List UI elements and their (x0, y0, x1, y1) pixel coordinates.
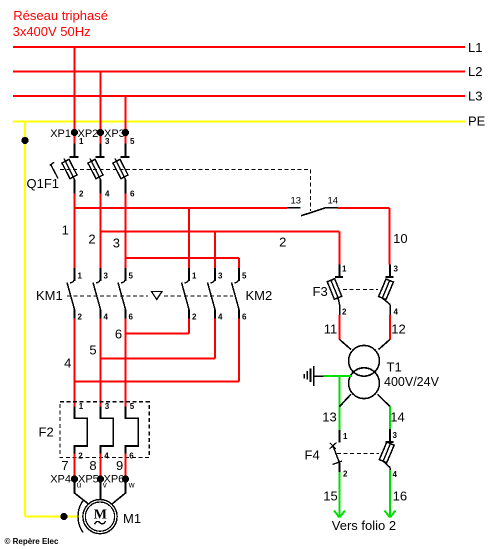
svg-text:13: 13 (291, 196, 302, 207)
svg-text:2: 2 (78, 451, 83, 460)
svg-text:3: 3 (105, 137, 110, 146)
svg-text:4: 4 (394, 308, 399, 317)
svg-text:6: 6 (115, 327, 122, 342)
svg-text:1: 1 (79, 137, 84, 146)
svg-text:2: 2 (78, 313, 83, 322)
svg-text:KM1: KM1 (36, 288, 63, 303)
svg-text:8: 8 (89, 458, 96, 473)
svg-text:4: 4 (393, 470, 398, 479)
svg-text:10: 10 (393, 231, 407, 246)
svg-text:2: 2 (192, 313, 197, 322)
svg-text:w: w (128, 481, 135, 490)
svg-text:Réseau triphasé: Réseau triphasé (13, 8, 108, 23)
svg-text:3: 3 (218, 272, 223, 281)
svg-text:9: 9 (116, 458, 123, 473)
svg-text:1: 1 (79, 402, 84, 411)
svg-text:F4: F4 (305, 447, 320, 462)
svg-text:3: 3 (104, 272, 109, 281)
svg-text:1: 1 (192, 272, 197, 281)
svg-text:2: 2 (79, 190, 84, 199)
svg-text:6: 6 (129, 451, 134, 460)
svg-text:3x400V 50Hz: 3x400V 50Hz (13, 24, 91, 39)
svg-text:1: 1 (78, 272, 83, 281)
svg-text:3: 3 (394, 265, 399, 274)
svg-text:L2: L2 (468, 64, 482, 79)
svg-text:XP4: XP4 (50, 474, 71, 486)
svg-text:XP1: XP1 (50, 128, 71, 140)
svg-text:5: 5 (129, 272, 134, 281)
svg-text:15: 15 (323, 489, 337, 504)
svg-text:5: 5 (89, 343, 96, 358)
svg-text:Q1F1: Q1F1 (27, 176, 60, 191)
svg-text:4: 4 (64, 355, 71, 370)
svg-text:5: 5 (130, 402, 135, 411)
svg-text:14: 14 (328, 196, 339, 207)
svg-text:2: 2 (279, 235, 286, 250)
svg-text:L1: L1 (468, 40, 482, 55)
svg-text:T1: T1 (387, 359, 402, 374)
svg-text:1: 1 (62, 223, 69, 238)
svg-text:4: 4 (105, 190, 110, 199)
svg-text:© Repère Elec: © Repère Elec (5, 537, 59, 546)
svg-text:3: 3 (105, 402, 110, 411)
svg-text:7: 7 (61, 458, 68, 473)
svg-text:3: 3 (393, 431, 398, 440)
svg-text:5: 5 (242, 272, 247, 281)
svg-text:16: 16 (393, 489, 407, 504)
svg-text:F2: F2 (39, 424, 54, 439)
svg-text:4: 4 (104, 451, 109, 460)
svg-text:2: 2 (88, 232, 95, 247)
svg-text:1: 1 (343, 432, 348, 441)
svg-text:PE: PE (468, 114, 486, 129)
svg-text:6: 6 (242, 313, 247, 322)
svg-text:400V/24V: 400V/24V (384, 375, 440, 389)
svg-text:4: 4 (218, 313, 223, 322)
svg-text:4: 4 (104, 313, 109, 322)
svg-text:1: 1 (342, 265, 347, 274)
svg-text:2: 2 (343, 470, 348, 479)
svg-text:M: M (94, 507, 107, 522)
svg-text:12: 12 (391, 322, 405, 337)
svg-text:u: u (77, 481, 81, 490)
svg-text:KM2: KM2 (246, 288, 273, 303)
svg-text:13: 13 (322, 409, 336, 424)
svg-text:5: 5 (130, 137, 135, 146)
svg-text:2: 2 (342, 308, 347, 317)
svg-text:Vers folio 2: Vers folio 2 (332, 518, 396, 533)
svg-text:v: v (103, 481, 107, 490)
svg-text:14: 14 (390, 409, 404, 424)
svg-text:6: 6 (129, 313, 134, 322)
svg-text:11: 11 (324, 322, 338, 337)
svg-text:3: 3 (113, 236, 120, 251)
svg-text:L3: L3 (468, 89, 482, 104)
svg-text:M1: M1 (123, 511, 141, 526)
svg-text:F3: F3 (313, 284, 328, 299)
svg-text:6: 6 (130, 190, 135, 199)
